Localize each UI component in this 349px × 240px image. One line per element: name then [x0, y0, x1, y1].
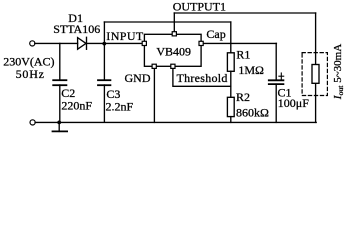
- wire junction down to C3: [103, 44, 105, 81]
- pin square OUTPUT top: [172, 32, 176, 36]
- node input junction dot: [102, 42, 106, 46]
- wire rail A down to load: [315, 13, 317, 65]
- svg-text:Cap: Cap: [206, 27, 225, 41]
- diode D1 triangle: [78, 38, 86, 50]
- pin square GND: [152, 64, 156, 68]
- svg-text:220nF: 220nF: [61, 98, 92, 112]
- capacitor C3 plates: [98, 79, 110, 81]
- resistor R2: [227, 97, 234, 116]
- polarity plus of C1: [279, 75, 284, 77]
- svg-text:1MΩ: 1MΩ: [238, 63, 264, 77]
- wire top main (terminal to diode anode, through C2 tap): [35, 42, 78, 44]
- pin square Cap: [199, 41, 203, 45]
- capacitor C1 plates: [269, 79, 284, 81]
- resistor R1: [227, 53, 234, 72]
- terminal top-left input: [30, 41, 35, 46]
- wire rail A OUTPUT1: [174, 12, 315, 14]
- wire C1 to bottom rail: [275, 84, 277, 122]
- terminal bottom-left input: [30, 120, 35, 125]
- diode D1 cathode bar: [86, 37, 88, 49]
- wire threshold pin down and right: [173, 69, 231, 87]
- load dashed box: [302, 53, 327, 96]
- wire Cap pin to C1: [201, 42, 276, 44]
- svg-text:OUTPUT1: OUTPUT1: [173, 0, 226, 14]
- load wire through dashed box: [315, 83, 317, 122]
- pin square Threshold: [171, 64, 175, 68]
- wire rail B horizontal: [104, 21, 230, 23]
- pin square INPUT: [142, 41, 146, 45]
- svg-text:Iout 5~30mA: Iout 5~30mA: [332, 44, 345, 100]
- wire C3 to bottom rail: [103, 85, 105, 122]
- svg-text:2.2nF: 2.2nF: [106, 100, 134, 114]
- resistor load (in dashed box): [312, 65, 319, 84]
- ground symbol: [58, 122, 60, 131]
- svg-text:STTA106: STTA106: [53, 22, 100, 36]
- wire junction up to rail B: [103, 22, 105, 44]
- svg-text:50Hz: 50Hz: [16, 67, 45, 81]
- wire IC top pin up to rail A: [173, 13, 175, 34]
- svg-text:R1: R1: [236, 48, 250, 62]
- capacitor C2 plates: [53, 79, 66, 81]
- svg-text:R2: R2: [236, 90, 250, 104]
- wire R2 to bottom rail: [230, 117, 232, 123]
- wire rail B down to R1: [230, 22, 232, 53]
- IC U1 VB409 regulator box: [144, 34, 201, 66]
- wire GND pin down: [153, 69, 155, 123]
- svg-text:VB409: VB409: [156, 44, 191, 58]
- svg-text:INPUT: INPUT: [106, 29, 144, 43]
- node ground junction dot: [57, 121, 61, 125]
- svg-text:Threshold: Threshold: [177, 71, 228, 85]
- wire top tap down to C2: [59, 43, 61, 80]
- svg-text:860kΩ: 860kΩ: [236, 106, 269, 120]
- wire C2 to bottom rail: [59, 85, 61, 122]
- svg-text:GND: GND: [125, 71, 151, 85]
- wire diode cathode to INPUT pin: [87, 42, 143, 44]
- wire R1 to R2: [230, 71, 232, 97]
- wire bottom rail: [35, 121, 316, 123]
- svg-text:100μF: 100μF: [278, 96, 309, 110]
